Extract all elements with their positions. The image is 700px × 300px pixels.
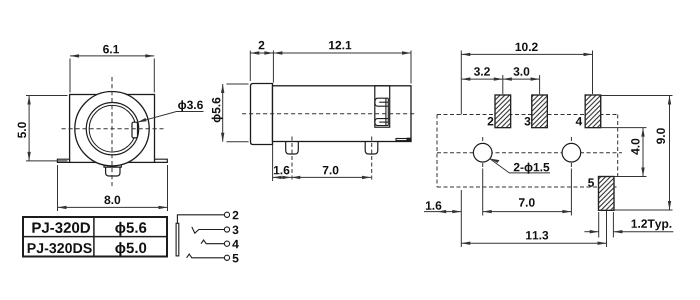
schematic pin 2 label (233, 211, 239, 219)
footprint left reference line (460, 51, 462, 248)
dimension phi5.6 (212, 84, 249, 142)
dimension 7.0 footprint (483, 169, 572, 216)
side view leg 2 (365, 142, 378, 154)
front view contact window (132, 122, 138, 138)
dimension 1.2 Typ (584, 212, 673, 238)
dimension 10.2 (461, 43, 592, 57)
pin label 3 (524, 117, 530, 126)
dimension 4.0 (631, 128, 645, 177)
dimension 8.0 (58, 165, 168, 211)
pad 2 (495, 95, 511, 128)
dimension 5.0 (18, 96, 68, 161)
table text PJ-320D (32, 222, 90, 233)
schematic pin 3 label (232, 226, 238, 235)
front view body (70, 95, 155, 163)
side view body (273, 86, 412, 142)
schematic pin 2 terminal (224, 212, 229, 217)
front view bore circle (86, 103, 138, 155)
front view inner ring (89, 105, 136, 152)
schematic pin 2 wire (177, 215, 224, 224)
spec table (23, 217, 167, 257)
side view leg centerlines (292, 137, 372, 181)
side view barrel (251, 84, 273, 145)
schematic pin 5 label (233, 254, 239, 262)
dimension 3.2 (461, 67, 503, 81)
schematic pin 4 label (232, 240, 239, 248)
side view switch contact (375, 98, 388, 125)
dimension 1.6 side (273, 145, 292, 182)
pad 5 (599, 177, 615, 211)
schematic pin 5 terminal (224, 255, 229, 260)
front view outer circle (75, 92, 149, 166)
dimension 2 (250, 41, 273, 83)
front view left flange tab (57, 159, 69, 162)
side view bottom pad (396, 138, 411, 141)
dimension 3.0 (503, 67, 540, 81)
pad centerline extensions (503, 51, 593, 95)
schematic pin 3 terminal (224, 227, 229, 232)
dimension 1.6 footprint (424, 201, 461, 213)
schematic pin 5 wire (187, 254, 225, 258)
side view switch housing (375, 86, 390, 127)
schematic pin 4 terminal (224, 241, 229, 246)
table text PJ-320DS (28, 243, 92, 253)
front view right flange tab (155, 159, 168, 162)
side view leg 1 (286, 142, 299, 154)
schematic pin 3 wire (192, 227, 225, 233)
footprint body outline dashed (437, 115, 618, 188)
table text phi5.6 (115, 222, 146, 236)
dimension 12.1 (273, 41, 411, 84)
label 2-phi1.5 with leader (490, 159, 551, 174)
footprint hole centerlines (437, 137, 622, 169)
pin label 5 (588, 178, 594, 186)
table text phi5.0 (115, 242, 146, 256)
schematic sleeve bar (176, 223, 179, 256)
pin label 2 (488, 117, 494, 125)
hole 1 (473, 143, 492, 162)
hole 2 (562, 143, 581, 162)
dimension 9.0 (657, 96, 672, 211)
spec table inner lines (23, 217, 167, 257)
label phi3.6 with leader (138, 100, 204, 122)
pad 4 (585, 95, 601, 128)
dimension 6.1 (70, 45, 154, 93)
pad4 pad5 right extensions (601, 96, 673, 211)
front view bottom nub (104, 165, 121, 176)
dimension 11.3 (461, 211, 606, 248)
side view centerline (242, 113, 416, 115)
dimension 7.0 side (282, 166, 371, 179)
pin label 4 (576, 117, 583, 125)
pad 3 (532, 95, 548, 128)
schematic pin 4 wire (201, 240, 224, 244)
front view centerlines (62, 77, 164, 186)
